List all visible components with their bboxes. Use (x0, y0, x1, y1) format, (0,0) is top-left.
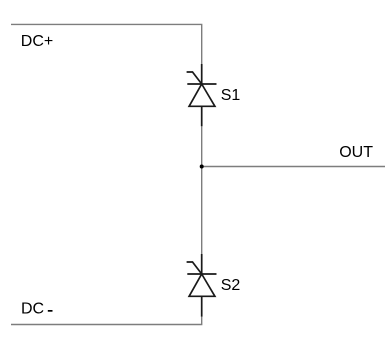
svg-text:S1: S1 (221, 87, 241, 104)
svg-text:OUT: OUT (339, 144, 373, 161)
svg-text:S2: S2 (221, 277, 241, 294)
svg-text:DC: DC (21, 301, 44, 318)
svg-text:DC+: DC+ (21, 33, 53, 50)
